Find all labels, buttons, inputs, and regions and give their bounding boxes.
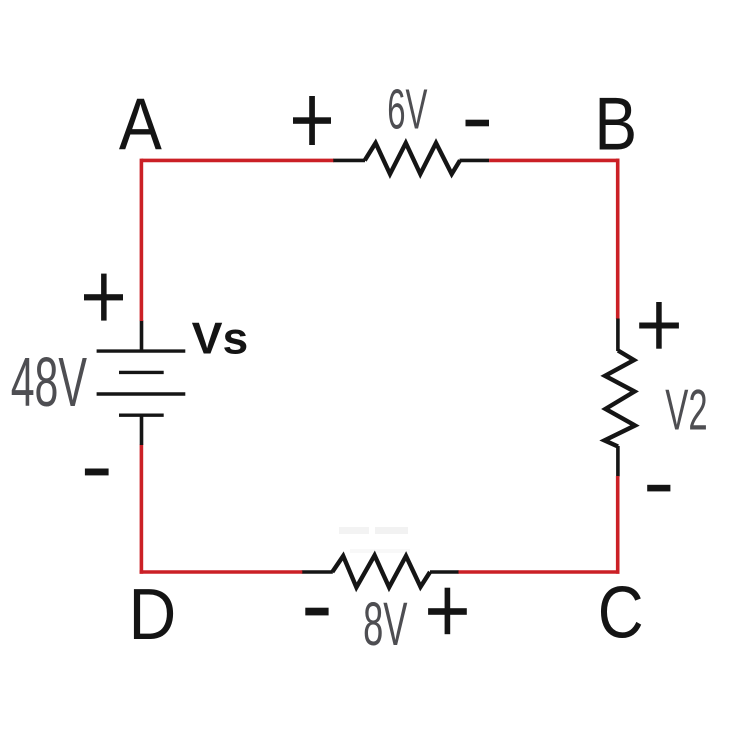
wire right upper: node B down to resistor R2 (red) xyxy=(616,159,620,319)
wire left upper: battery to node A (red) xyxy=(140,159,144,321)
node B xyxy=(594,82,637,166)
svg-text:48V: 48V xyxy=(11,343,88,421)
svg-text:V2: V2 xyxy=(665,378,707,442)
polarity - at battery bottom xyxy=(85,469,109,476)
wire left lower: node D up to battery Vs (red) xyxy=(140,445,144,574)
svg-text:8V: 8V xyxy=(363,590,408,658)
svg-text:B: B xyxy=(594,82,637,166)
polarity + at R3 right xyxy=(428,588,467,635)
svg-text:A: A xyxy=(119,82,162,165)
wire right lower: R2 to node C (red) xyxy=(616,476,620,574)
wire: resistor R2 top lead (black) xyxy=(616,319,620,352)
polarity + at R1 left xyxy=(293,96,331,145)
label Vs xyxy=(192,314,249,364)
polarity - at R2 bottom xyxy=(647,485,670,492)
wire: resistor R1 left lead (black) xyxy=(333,159,365,163)
polarity + at R2 top xyxy=(639,302,679,349)
wire top-left: node A to resistor R1 (red) xyxy=(141,159,334,163)
wire: resistor R3 right lead (black) xyxy=(430,570,459,574)
resistor R1 (6V) top xyxy=(365,143,460,174)
polarity - at R3 left xyxy=(305,608,328,616)
wire: battery Vs top lead (black) xyxy=(140,320,144,351)
value label V2 xyxy=(665,378,707,442)
wire: battery Vs bottom lead (black) xyxy=(140,415,144,445)
node C xyxy=(598,571,644,653)
svg-text:6V: 6V xyxy=(387,77,427,141)
resistor R2 (V2) right side xyxy=(605,351,636,447)
battery Vs xyxy=(97,351,186,415)
value label 8V xyxy=(363,590,408,658)
wire: resistor R3 left lead (black) xyxy=(302,570,333,574)
resistor R3 (8V) bottom xyxy=(332,555,430,587)
polarity + at battery top xyxy=(84,274,123,321)
node A xyxy=(119,82,162,165)
wire top-right: R1 to node B (red) xyxy=(489,159,619,163)
svg-text:C: C xyxy=(598,571,644,653)
svg-text:Vs: Vs xyxy=(192,314,249,364)
node D xyxy=(129,573,177,654)
wire: resistor R1 right lead (black) xyxy=(460,159,490,163)
wire: resistor R2 bottom lead (black) xyxy=(616,446,620,477)
value label 6V xyxy=(387,77,427,141)
wire bottom-left: R3 to node D (red) xyxy=(140,570,303,574)
wire bottom-right: node C to resistor R3 (red) xyxy=(458,570,620,574)
svg-text:D: D xyxy=(129,573,177,654)
value label 48V xyxy=(11,343,88,421)
polarity - at R1 right xyxy=(466,120,490,127)
